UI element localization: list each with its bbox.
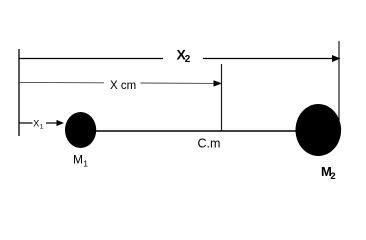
svg-text:1: 1 bbox=[83, 159, 88, 169]
svg-text:X cm: X cm bbox=[110, 80, 136, 92]
svg-text:M: M bbox=[73, 153, 83, 167]
svg-text:X: X bbox=[33, 118, 39, 128]
svg-text:1: 1 bbox=[40, 124, 44, 131]
svg-text:2: 2 bbox=[330, 171, 335, 182]
svg-text:2: 2 bbox=[185, 54, 191, 65]
svg-text:C.m: C.m bbox=[198, 137, 221, 151]
